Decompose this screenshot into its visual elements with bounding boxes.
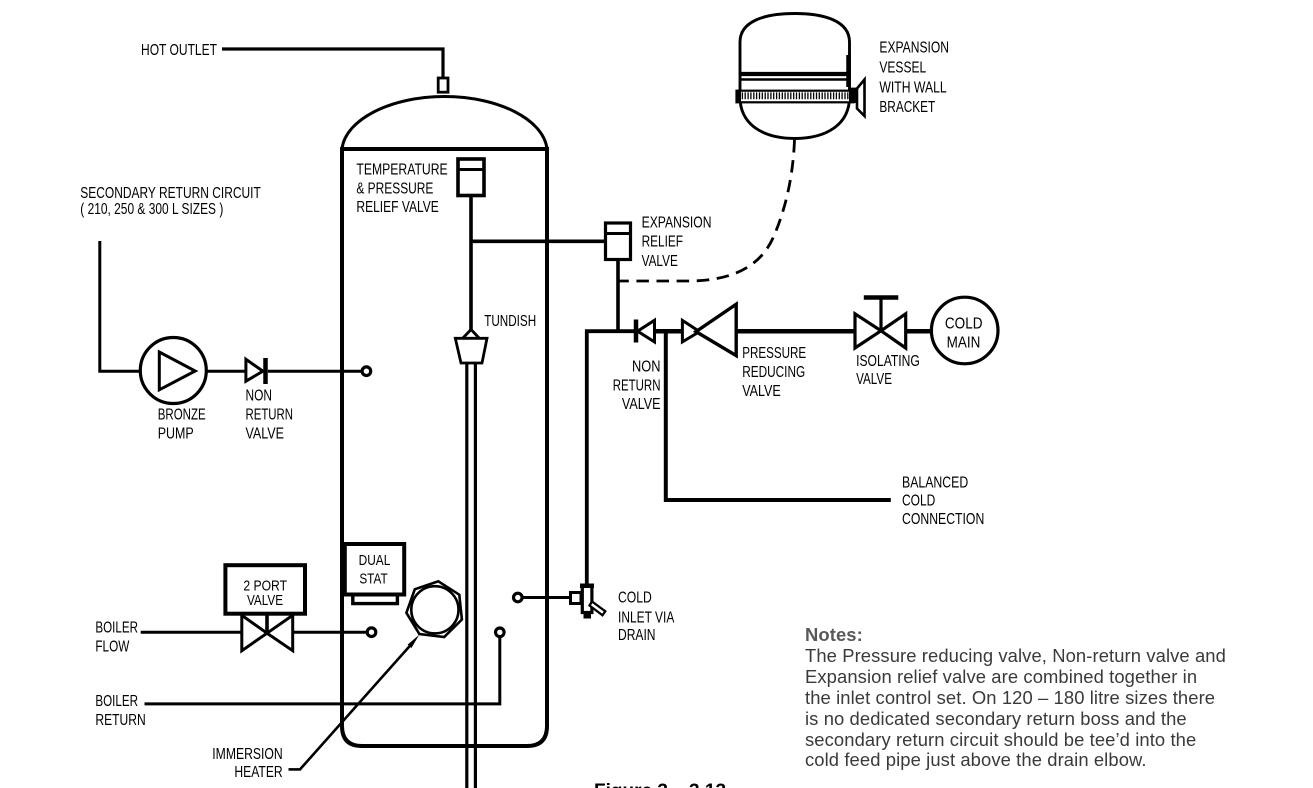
- non-return valve (inlet set) bar: [634, 320, 639, 343]
- wire PRV to isolating valve: [736, 329, 855, 334]
- non-return valve (inlet set) triangle: [638, 320, 655, 342]
- svg-text:VALVE: VALVE: [642, 253, 678, 270]
- notes text block: [805, 625, 1265, 771]
- wall strap band: [737, 91, 854, 103]
- hot outlet nozzle: [438, 78, 448, 92]
- node boiler flow boss: [367, 628, 376, 637]
- svg-text:BOILER: BOILER: [95, 619, 138, 636]
- immersion heater pointer: [300, 644, 412, 770]
- expansion vessel body: [740, 14, 850, 139]
- svg-text:BALANCED: BALANCED: [902, 474, 968, 491]
- svg-text:VALVE: VALVE: [246, 426, 285, 443]
- expansion relief valve symbol: [606, 223, 631, 260]
- 2 port valve box: [225, 565, 305, 614]
- vessel right edge thick strap: [846, 55, 851, 87]
- svg-text:CONNECTION: CONNECTION: [902, 511, 984, 528]
- cylinder shell: [342, 149, 547, 746]
- cold main circle: [931, 297, 998, 364]
- svg-text:VESSEL: VESSEL: [879, 59, 926, 76]
- immersion heater boss heptagon: [406, 581, 462, 637]
- svg-text:IMMERSION: IMMERSION: [212, 746, 282, 763]
- isolating valve bowtie: [855, 314, 906, 348]
- svg-text:& PRESSURE: & PRESSURE: [356, 181, 433, 198]
- svg-text:BRONZE: BRONZE: [158, 407, 206, 424]
- non-return valve (secondary) bar: [263, 358, 268, 384]
- non-return valve (secondary) triangle: [246, 359, 263, 381]
- drain valve bottom nub: [584, 613, 592, 619]
- svg-text:INLET VIA: INLET VIA: [618, 610, 675, 627]
- immersion heater circle: [411, 586, 458, 633]
- wire NRV to cylinder: [268, 370, 361, 373]
- drain elbow stub: [571, 593, 582, 604]
- isolating valve stem: [879, 298, 882, 331]
- svg-text:FLOW: FLOW: [95, 638, 130, 655]
- cylinder dome: [342, 97, 547, 150]
- svg-text:COLD: COLD: [945, 316, 983, 333]
- svg-text:PRESSURE: PRESSURE: [742, 345, 806, 362]
- svg-text:REDUCING: REDUCING: [742, 364, 805, 381]
- wire NRV to PRV: [655, 329, 683, 334]
- tundish cup: [455, 338, 487, 363]
- node cold feed boss: [514, 593, 523, 602]
- svg-text:VALVE: VALVE: [622, 396, 661, 413]
- svg-text:COLD: COLD: [902, 492, 935, 509]
- svg-text:BRACKET: BRACKET: [879, 99, 935, 116]
- balanced cold tee junction: [666, 331, 891, 500]
- svg-text:RELIEF VALVE: RELIEF VALVE: [356, 199, 438, 216]
- wire T&amp;P discharge down: [469, 196, 473, 332]
- svg-text:RETURN: RETURN: [246, 407, 294, 424]
- wire boiler flow right: [293, 631, 366, 634]
- svg-text:DUAL: DUAL: [359, 552, 391, 569]
- svg-text:HEATER: HEATER: [234, 764, 282, 781]
- wire boiler flow left: [141, 631, 242, 634]
- svg-text:VALVE: VALVE: [742, 383, 781, 400]
- pressure reducing valve big cone: [696, 304, 736, 355]
- wire cold inlet: [523, 596, 570, 599]
- bronze pump: [140, 338, 206, 404]
- node secondary return boss: [362, 367, 371, 376]
- drain valve body: [582, 585, 592, 612]
- svg-text:COLD: COLD: [618, 590, 652, 607]
- T&amp;P relief valve symbol: [458, 159, 484, 196]
- wall bracket: [857, 80, 865, 117]
- svg-text:TEMPERATURE: TEMPERATURE: [356, 162, 447, 179]
- svg-text:RETURN: RETURN: [95, 712, 145, 729]
- svg-text:NON: NON: [632, 359, 661, 376]
- svg-text:HOT OUTLET: HOT OUTLET: [141, 42, 217, 59]
- vessel weld line upper: [741, 72, 849, 76]
- svg-text:RETURN: RETURN: [613, 378, 661, 395]
- wire boiler return: [145, 638, 500, 704]
- svg-text:STAT: STAT: [359, 570, 387, 587]
- wire corner to NRV: [587, 331, 635, 584]
- drain valve spout: [590, 602, 606, 616]
- svg-text:TUNDISH: TUNDISH: [484, 313, 536, 330]
- svg-text:DRAIN: DRAIN: [618, 627, 656, 644]
- dual stat tab: [353, 595, 398, 604]
- node boiler return boss: [496, 628, 505, 637]
- wire isolating valve to cold main: [906, 329, 932, 334]
- svg-text:PUMP: PUMP: [158, 426, 194, 443]
- bracket stub: [851, 88, 858, 103]
- svg-text:WITH WALL: WITH WALL: [879, 80, 946, 97]
- wire secondary return: [100, 241, 141, 371]
- wire branch to expansion relief valve: [471, 240, 605, 244]
- svg-text:VALVE: VALVE: [247, 592, 283, 609]
- 2 port valve bowtie: [242, 615, 293, 650]
- svg-text:MAIN: MAIN: [947, 335, 981, 352]
- svg-text:BOILER: BOILER: [95, 693, 138, 710]
- tundish funnel tip: [462, 330, 480, 340]
- svg-text:EXPANSION: EXPANSION: [879, 40, 949, 57]
- svg-text:RELIEF: RELIEF: [642, 234, 684, 251]
- 2 port valve stem: [265, 614, 269, 634]
- figure caption (clipped at page bottom): [594, 781, 726, 788]
- svg-text:EXPANSION: EXPANSION: [642, 215, 712, 232]
- svg-text:SECONDARY RETURN CIRCUIT: SECONDARY RETURN CIRCUIT: [80, 185, 261, 202]
- svg-text:VALVE: VALVE: [856, 371, 892, 388]
- wire hot outlet: [222, 49, 443, 78]
- svg-text:NON: NON: [246, 388, 273, 405]
- svg-text:ISOLATING: ISOLATING: [856, 353, 920, 370]
- isolating valve handle: [864, 295, 899, 300]
- vessel weld line lower: [741, 78, 849, 80]
- dual stat box: [345, 544, 404, 595]
- svg-text:( 210, 250 & 300 L SIZES ): ( 210, 250 & 300 L SIZES ): [80, 201, 223, 218]
- tundish discharge pipes: [465, 363, 468, 788]
- wire pump to NRV: [206, 370, 246, 373]
- wire ERV down: [616, 260, 620, 332]
- dashed wire to expansion vessel: [619, 140, 795, 281]
- pressure reducing valve small cone: [682, 320, 699, 342]
